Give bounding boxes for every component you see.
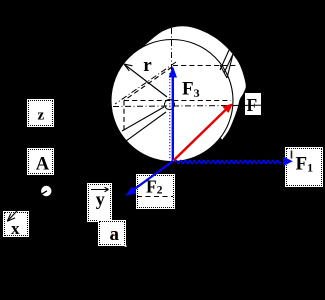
dash-dot vertical axis above F3 [171,28,173,70]
circle A outline [111,40,233,162]
point marker ball near A [41,186,51,196]
force F3 blue dotted companion line [169,73,171,160]
hatch tick 4 (V right stroke) [227,54,233,78]
F2 blue arrow overlay on box [133,161,173,190]
stray white diagonal near a box [117,242,127,247]
red speck in a box [112,234,114,236]
dark tick inside F1 box [291,151,293,159]
radius arrow r [124,64,167,97]
force F2 (blue arrow down-left) [125,161,173,196]
a box [99,221,125,245]
F box [245,93,261,116]
x box [4,212,28,236]
F2 box [137,175,174,208]
circle B outline arc [141,26,246,140]
force F (red arrow) [174,103,234,160]
force F1 arrowhead [283,156,293,166]
dashed horizontal top (from F3 tip to sphere edge) [173,65,236,67]
y over-arrow [91,187,109,192]
hatch tick 2 on upper right of sphere [224,54,233,73]
dashed vertical left [123,101,125,133]
dashed divider inside F2 box [137,196,173,198]
sphere second contour (circle B) white bulge fill [141,26,246,140]
point marker slash [40,191,47,195]
dash-dot horizontal axis [113,105,243,106]
F1 box [286,148,322,186]
dashed diagonal (F3 tip to left corner) [124,67,172,101]
hatch tick 3 (V left stroke) [220,65,227,78]
rod line 2 [126,112,166,141]
dash-dot line over F box [243,104,272,106]
rod line 1 [122,107,164,131]
hatch tick 1 on upper right of sphere [220,50,229,70]
svg-text:r: r [143,55,152,76]
A box [28,149,53,174]
y box [88,184,111,221]
z box [28,100,53,126]
dashed horizontal mid (through centre) [124,100,231,102]
force F3 (blue vertical arrow) [169,66,177,161]
centre ring [165,100,175,110]
force F1 wavy blue line [175,161,281,164]
x-axis arrow [7,199,28,221]
dash-dot diagonal axis [115,62,176,104]
sphere body (circle A) white fill [111,40,233,162]
